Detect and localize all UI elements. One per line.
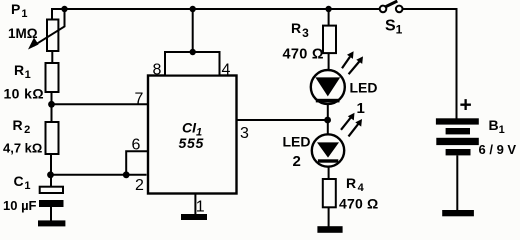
svg-text:10 kΩ: 10 kΩ — [4, 86, 44, 102]
wire C1 to ground — [50, 207, 52, 221]
svg-text:1: 1 — [357, 100, 365, 117]
LED 2 — [312, 134, 344, 166]
svg-text:470 Ω: 470 Ω — [339, 195, 378, 211]
svg-text:7: 7 — [135, 91, 144, 108]
node junction IC supply on rail — [190, 6, 196, 12]
svg-text:+: + — [460, 94, 472, 117]
wire R3 to LED1 — [328, 53, 330, 70]
svg-text:2: 2 — [293, 153, 301, 170]
svg-text:555: 555 — [179, 135, 204, 151]
node junction R2/C1 pin2 — [47, 171, 54, 178]
wire LED2 to R4 — [328, 167, 330, 180]
wire pin 6 branch — [126, 151, 148, 175]
ground IC pin1 — [181, 214, 207, 220]
battery B1 — [436, 118, 479, 155]
potentiometer P1 wiper arrow — [28, 9, 65, 50]
wire battery to ground — [456, 155, 458, 210]
svg-text:470 Ω: 470 Ω — [283, 46, 324, 62]
LED2 light arrows — [341, 113, 362, 137]
node junction P1 wiper on rail — [61, 6, 67, 12]
wire R1 to R2 — [51, 92, 53, 122]
node junction pin6 branch — [123, 171, 130, 178]
resistor R4 body — [323, 179, 336, 207]
wire pin 2 — [51, 174, 147, 176]
svg-text:1MΩ: 1MΩ — [8, 26, 38, 41]
potentiometer P1 body — [47, 20, 58, 52]
svg-text:LED: LED — [283, 134, 311, 150]
wire pin 1 to ground — [194, 194, 196, 215]
resistor R1 body — [46, 63, 59, 92]
node junction R1/R2 pin7 — [48, 101, 55, 108]
wire R4 to ground — [328, 207, 330, 226]
svg-text:4: 4 — [222, 62, 231, 79]
ground battery — [442, 210, 474, 216]
IC supply bracket pins 8-4 — [165, 52, 220, 76]
svg-text:1: 1 — [196, 198, 205, 215]
LED1 light arrows — [342, 51, 363, 74]
svg-text:2: 2 — [135, 177, 144, 194]
svg-text:3: 3 — [240, 125, 249, 142]
switch S1 — [380, 1, 403, 12]
capacitor C1 bottom plate — [39, 200, 64, 207]
node junction pin3/LEDs — [324, 117, 331, 124]
resistor R2 body — [46, 122, 59, 154]
op-amp U1 (IC CI1 555 body) — [148, 76, 237, 194]
wire pin 3 to LED junction — [237, 119, 328, 121]
wire R2 to C1 — [50, 154, 52, 187]
wire rail to bracket — [192, 9, 194, 52]
wire rail to R3 — [328, 9, 330, 26]
node junction bracket top — [190, 49, 196, 55]
capacitor C1 top plate — [40, 187, 63, 193]
svg-text:LED: LED — [350, 80, 378, 96]
svg-text:10 µF: 10 µF — [3, 198, 37, 213]
ground R4 — [317, 226, 342, 233]
wire top rail left segment (V+ rail) — [52, 9, 380, 20]
node junction R3 on rail — [325, 6, 331, 12]
LED 1 — [311, 70, 345, 104]
svg-text:6 / 9 V: 6 / 9 V — [479, 142, 517, 157]
svg-text:8: 8 — [153, 61, 162, 78]
wire LED1 to LED2 — [327, 104, 329, 135]
resistor R3 body — [323, 26, 336, 53]
svg-text:6: 6 — [132, 137, 141, 154]
wire P1 to R1 — [51, 51, 53, 63]
svg-text:4,7 kΩ: 4,7 kΩ — [3, 141, 42, 156]
wire pin 7 — [52, 103, 149, 105]
wire top rail right segment to battery — [403, 9, 457, 119]
ground C1 — [38, 220, 65, 226]
